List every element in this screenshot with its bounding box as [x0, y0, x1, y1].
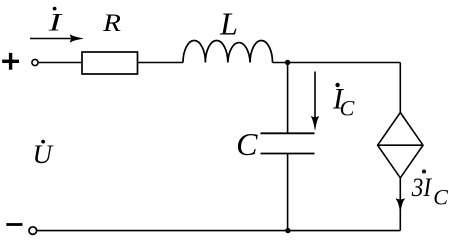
bottom wire: [36, 230, 400, 232]
inductor L body: [183, 40, 273, 62]
terminal node (top, open circle): [32, 59, 38, 65]
node junction dot (top): [285, 60, 290, 65]
resistor R body: [82, 52, 138, 74]
wire: [287, 63, 289, 134]
svg-text:3I: 3I: [411, 172, 432, 202]
plus terminal sign: [2, 53, 19, 70]
current label I (dot over I): [47, 7, 63, 37]
svg-text:R: R: [102, 10, 121, 37]
wire: [287, 154, 289, 231]
wire with source direction arrow: [396, 178, 405, 231]
svg-text:C: C: [433, 184, 448, 209]
wire: [273, 62, 401, 64]
wire: [38, 62, 82, 64]
svg-text:U: U: [33, 140, 55, 169]
current arrow for I: [30, 35, 83, 42]
voltage label U (dot over U): [33, 140, 55, 169]
minus terminal sign: [6, 223, 22, 226]
svg-text:C: C: [236, 126, 258, 162]
current label Ic (dot over I, subscript C): [332, 83, 355, 121]
terminal node (bottom, open circle): [29, 227, 37, 235]
current arrow for Ic: [311, 72, 319, 130]
wire: [138, 62, 184, 64]
svg-text:L: L: [219, 5, 238, 41]
node junction dot (bottom): [285, 228, 290, 233]
dependent current source (diamond): [378, 113, 423, 178]
wire: [399, 63, 401, 113]
svg-text:C: C: [340, 95, 355, 120]
capacitor C plates: [261, 133, 315, 153]
source value label 3Ic: [411, 170, 448, 210]
